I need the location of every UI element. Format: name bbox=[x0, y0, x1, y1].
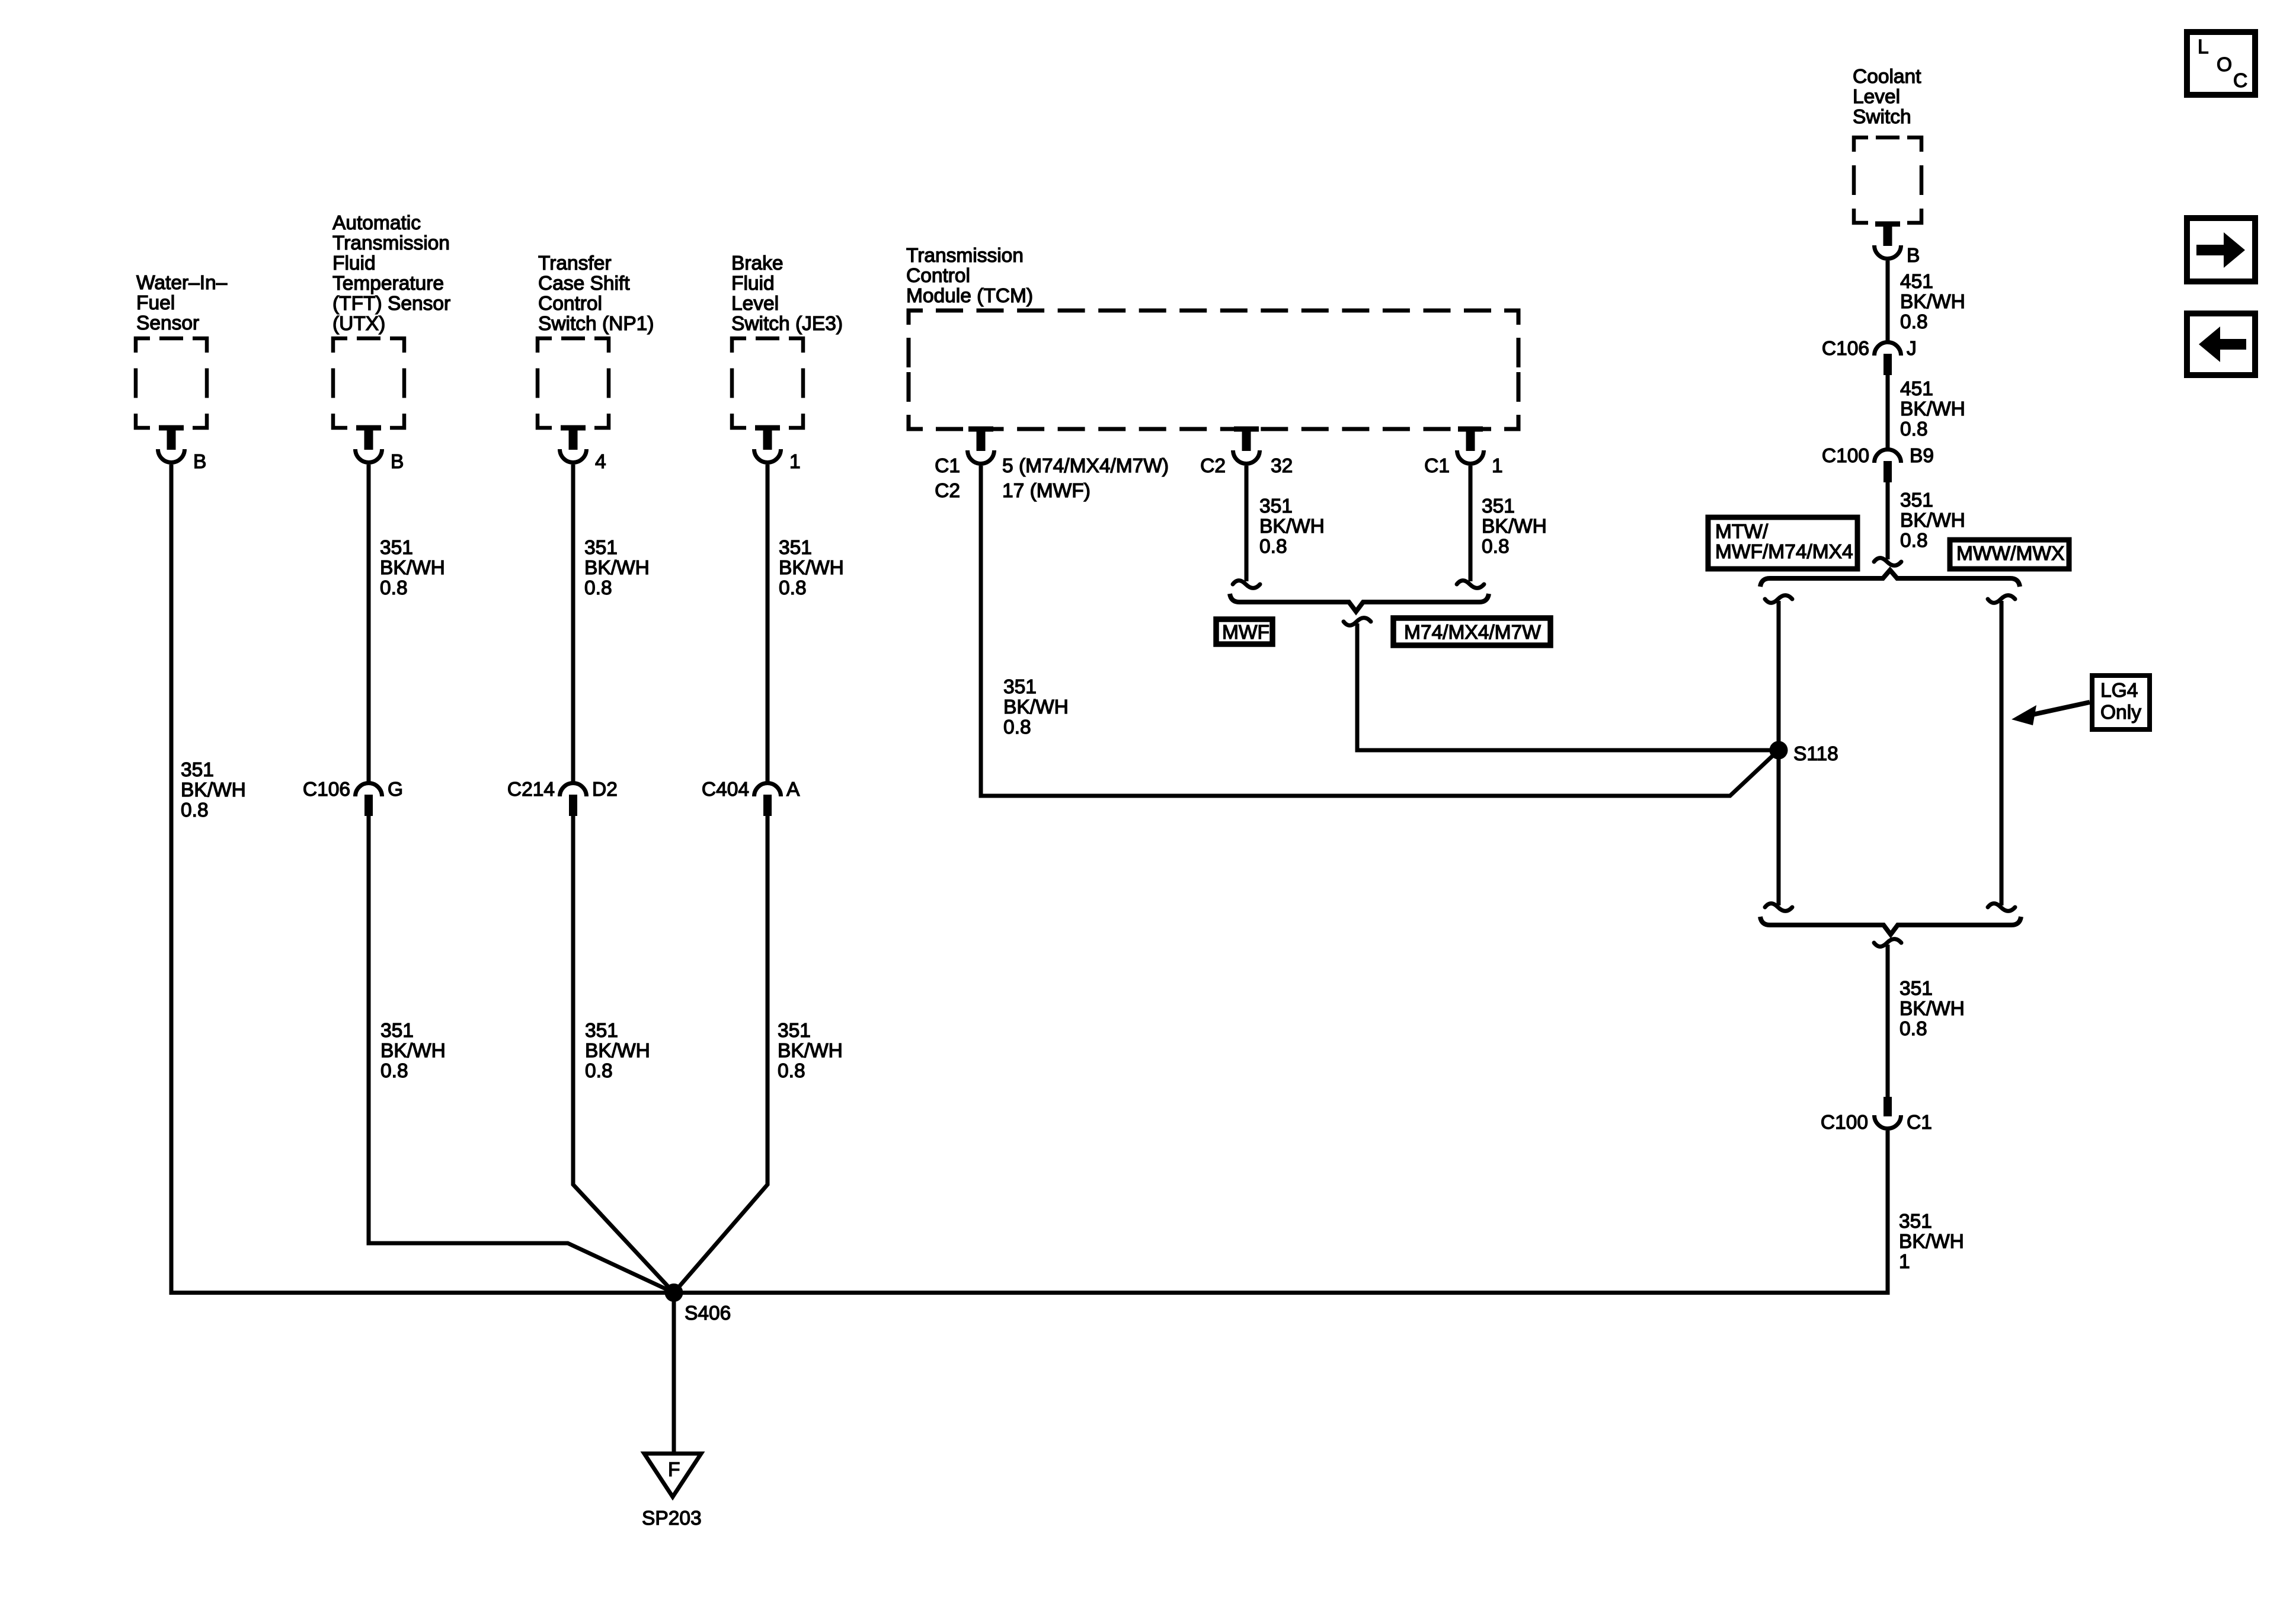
svg-text:B9: B9 bbox=[1910, 445, 1934, 467]
svg-text:C100: C100 bbox=[1821, 1112, 1868, 1134]
wire: water-in-fuel sensor B to ground bus S406 bbox=[171, 465, 1888, 1293]
svg-text:0.8: 0.8 bbox=[778, 1060, 805, 1082]
pin B of water-in-fuel sensor bbox=[159, 425, 184, 431]
wire break hook (pin 1 wire end) bbox=[1457, 581, 1484, 588]
svg-text:17 (MWF): 17 (MWF) bbox=[1002, 480, 1091, 502]
wire break hook (top of right variant branch) bbox=[1988, 596, 2015, 603]
svg-text:1: 1 bbox=[789, 451, 801, 473]
wire: coolant pin B to connector C106 J bbox=[1886, 261, 1890, 343]
wire break hook (pin 32 wire end) bbox=[1233, 581, 1260, 588]
svg-text:0.8: 0.8 bbox=[380, 577, 408, 599]
wire break hook (top of brace output wire) bbox=[1344, 618, 1371, 626]
svg-text:0.8: 0.8 bbox=[1900, 530, 1928, 552]
svg-text:351: 351 bbox=[380, 1020, 414, 1042]
svg-text:351: 351 bbox=[1900, 489, 1933, 511]
svg-text:0.8: 0.8 bbox=[585, 1060, 613, 1082]
svg-text:C1: C1 bbox=[935, 455, 960, 477]
svg-text:D2: D2 bbox=[592, 779, 618, 801]
svg-text:C214: C214 bbox=[507, 779, 555, 801]
svg-text:B: B bbox=[1907, 245, 1920, 267]
svg-text:351: 351 bbox=[1482, 495, 1515, 517]
svg-text:Automatic: Automatic bbox=[332, 212, 421, 234]
svg-text:LG4: LG4 bbox=[2100, 680, 2138, 702]
svg-text:Switch (NP1): Switch (NP1) bbox=[538, 313, 654, 335]
svg-text:5 (M74/MX4/M7W): 5 (M74/MX4/M7W) bbox=[1002, 455, 1169, 477]
svg-text:0.8: 0.8 bbox=[1900, 1018, 1927, 1040]
water-in-fuel sensor dashed box bbox=[136, 338, 207, 428]
svg-text:Temperature: Temperature bbox=[332, 273, 444, 295]
svg-text:0.8: 0.8 bbox=[1003, 716, 1031, 738]
pin 1 of brake fluid level switch bbox=[755, 425, 780, 431]
label box MWF bbox=[1216, 619, 1272, 644]
ground symbol F (triangle) bbox=[644, 1454, 701, 1497]
svg-text:1: 1 bbox=[1899, 1251, 1910, 1273]
svg-text:C2: C2 bbox=[935, 480, 960, 502]
svg-text:L: L bbox=[2198, 36, 2209, 58]
svg-text:A: A bbox=[786, 779, 800, 801]
TFT sensor dashed box bbox=[333, 338, 404, 428]
svg-text:C1: C1 bbox=[1907, 1112, 1932, 1134]
svg-text:SP203: SP203 bbox=[642, 1507, 702, 1529]
svg-text:BK/WH: BK/WH bbox=[181, 779, 246, 801]
svg-text:BK/WH: BK/WH bbox=[1482, 516, 1547, 537]
svg-text:Level: Level bbox=[731, 293, 779, 315]
svg-text:B: B bbox=[391, 451, 404, 473]
TCM pin 32 (C2) bbox=[1234, 427, 1259, 432]
svg-text:C404: C404 bbox=[702, 779, 749, 801]
svg-text:O: O bbox=[2217, 54, 2232, 76]
svg-text:351: 351 bbox=[1900, 978, 1933, 1000]
inline connector C214 pin D2 bbox=[560, 783, 587, 797]
svg-text:C: C bbox=[2233, 70, 2247, 92]
svg-text:351: 351 bbox=[181, 759, 214, 781]
svg-text:(UTX): (UTX) bbox=[332, 313, 385, 335]
brace joining MWF and M74/MX4/M7W wires bbox=[1230, 594, 1489, 612]
svg-text:0.8: 0.8 bbox=[779, 577, 807, 599]
svg-text:C100: C100 bbox=[1822, 445, 1869, 467]
TCM dashed box bbox=[909, 311, 1518, 429]
svg-text:(TFT) Sensor: (TFT) Sensor bbox=[332, 293, 450, 315]
wire break hook (below merge brace) bbox=[1874, 939, 1901, 947]
wire: right variant branch bbox=[2000, 601, 2004, 905]
svg-text:0.8: 0.8 bbox=[181, 799, 209, 821]
label box MWW/MWX bbox=[1950, 540, 2069, 569]
svg-text:Only: Only bbox=[2100, 702, 2141, 724]
svg-text:BK/WH: BK/WH bbox=[1003, 696, 1069, 718]
svg-text:4: 4 bbox=[595, 451, 606, 473]
legend box left arrow bbox=[2187, 313, 2255, 375]
svg-text:C1: C1 bbox=[1424, 455, 1450, 477]
svg-text:Module (TCM): Module (TCM) bbox=[906, 285, 1033, 307]
wire: C106 J to C100 B9 bbox=[1886, 375, 1890, 449]
svg-text:BK/WH: BK/WH bbox=[380, 1040, 446, 1062]
svg-text:351: 351 bbox=[584, 537, 618, 559]
label box LG4 Only bbox=[2092, 676, 2150, 729]
svg-text:MWW/MWX: MWW/MWX bbox=[1956, 543, 2064, 565]
wire: merge brace down to C100 C1 bbox=[1886, 945, 1890, 1097]
arrow from LG4 Only box to right branch bbox=[2027, 702, 2090, 716]
svg-text:Coolant: Coolant bbox=[1853, 66, 1921, 88]
svg-text:Fluid: Fluid bbox=[332, 252, 376, 274]
wire break hook (top of left variant branch) bbox=[1765, 596, 1792, 603]
svg-text:BK/WH: BK/WH bbox=[380, 557, 445, 579]
svg-text:0.8: 0.8 bbox=[1900, 311, 1928, 333]
svg-text:351: 351 bbox=[778, 1020, 811, 1042]
wire: C100 B9 down to transmission brace bbox=[1886, 482, 1890, 559]
inline connector C404 pin A bbox=[754, 783, 781, 797]
brake fluid level switch dashed box bbox=[732, 338, 803, 428]
wire break hook (above transmission brace) bbox=[1874, 558, 1901, 566]
svg-text:Brake: Brake bbox=[731, 252, 784, 274]
svg-text:S406: S406 bbox=[685, 1302, 731, 1324]
svg-text:BK/WH: BK/WH bbox=[1899, 1231, 1964, 1253]
svg-text:BK/WH: BK/WH bbox=[1900, 291, 1965, 313]
svg-text:Transfer: Transfer bbox=[538, 252, 611, 274]
wire: C404 A down to S406 bbox=[674, 815, 768, 1293]
wire: brake fluid pin 1 down to connector C404 bbox=[766, 465, 770, 783]
TCM pin 5/17 (C1/C2) bbox=[968, 427, 993, 432]
transfer case switch dashed box bbox=[538, 338, 609, 428]
svg-text:BK/WH: BK/WH bbox=[585, 1040, 650, 1062]
svg-text:Transmission: Transmission bbox=[906, 245, 1024, 267]
svg-text:BK/WH: BK/WH bbox=[1259, 516, 1325, 537]
inline connector C100 pin B9 bbox=[1875, 450, 1901, 463]
wire: left variant branch (through S118) bbox=[1777, 601, 1781, 905]
svg-text:351: 351 bbox=[1259, 495, 1293, 517]
svg-text:351: 351 bbox=[779, 537, 812, 559]
svg-text:Fuel: Fuel bbox=[136, 292, 175, 314]
svg-text:MWF: MWF bbox=[1222, 622, 1269, 644]
coolant level switch dashed box bbox=[1854, 137, 1921, 223]
svg-text:Control: Control bbox=[906, 265, 970, 287]
svg-text:Control: Control bbox=[538, 293, 602, 315]
svg-text:M74/MX4/M7W: M74/MX4/M7W bbox=[1404, 622, 1541, 644]
svg-text:J: J bbox=[1907, 338, 1917, 360]
svg-text:Switch (JE3): Switch (JE3) bbox=[731, 313, 843, 335]
label box MTW/MWF/M74/MX4 bbox=[1708, 517, 1857, 569]
wire break hook (bottom of right variant branch) bbox=[1988, 904, 2015, 911]
svg-text:BK/WH: BK/WH bbox=[1900, 398, 1965, 420]
svg-text:BK/WH: BK/WH bbox=[1900, 510, 1965, 532]
svg-text:Water–In–: Water–In– bbox=[136, 272, 228, 294]
svg-text:Switch: Switch bbox=[1853, 106, 1911, 128]
svg-text:BK/WH: BK/WH bbox=[778, 1040, 843, 1062]
svg-text:0.8: 0.8 bbox=[1482, 536, 1510, 558]
svg-text:C106: C106 bbox=[1822, 338, 1869, 360]
brace merging transmission variants bbox=[1760, 917, 2021, 934]
wire: C106 G down and over to S406 bbox=[369, 815, 674, 1293]
svg-text:C106: C106 bbox=[303, 779, 350, 801]
wire: S406 down to ground symbol bbox=[672, 1292, 676, 1453]
svg-text:351: 351 bbox=[1003, 676, 1037, 698]
inline connector C106 pin J bbox=[1875, 343, 1901, 356]
svg-text:1: 1 bbox=[1492, 455, 1503, 477]
svg-text:0.8: 0.8 bbox=[1900, 418, 1928, 440]
svg-text:32: 32 bbox=[1271, 455, 1293, 477]
pin B of TFT sensor bbox=[356, 425, 381, 431]
svg-text:G: G bbox=[388, 779, 403, 801]
svg-text:BK/WH: BK/WH bbox=[779, 557, 844, 579]
svg-text:351: 351 bbox=[585, 1020, 618, 1042]
pin 4 of transfer case switch bbox=[561, 425, 586, 431]
inline connector C106 pin G bbox=[356, 783, 382, 797]
svg-text:MTW/: MTW/ bbox=[1715, 521, 1769, 543]
brace splitting to transmission variants bbox=[1760, 570, 2020, 587]
wire: C214 D2 down to S406 bbox=[573, 815, 674, 1293]
legend box right arrow bbox=[2187, 218, 2255, 281]
svg-text:C2: C2 bbox=[1200, 455, 1226, 477]
wire: transfer case pin 4 down to connector C214 bbox=[571, 465, 575, 783]
svg-text:Fluid: Fluid bbox=[731, 273, 775, 295]
svg-text:Transmission: Transmission bbox=[332, 232, 450, 254]
svg-text:0.8: 0.8 bbox=[1259, 536, 1287, 558]
svg-text:S118: S118 bbox=[1793, 743, 1838, 765]
wire: brace output over to splice S118 bbox=[1357, 623, 1779, 750]
svg-text:0.8: 0.8 bbox=[584, 577, 612, 599]
svg-text:BK/WH: BK/WH bbox=[1900, 998, 1965, 1020]
legend box LOC bbox=[2187, 32, 2255, 95]
svg-text:Sensor: Sensor bbox=[136, 312, 199, 334]
wire: TFT pin B down to connector C106 bbox=[367, 465, 371, 783]
svg-text:351: 351 bbox=[380, 537, 413, 559]
svg-text:Level: Level bbox=[1853, 86, 1900, 108]
wire: TCM pin 32 down to MWF brace bbox=[1245, 466, 1249, 581]
svg-text:451: 451 bbox=[1900, 378, 1933, 400]
svg-text:BK/WH: BK/WH bbox=[584, 557, 650, 579]
svg-text:0.8: 0.8 bbox=[380, 1060, 408, 1082]
svg-text:Case Shift: Case Shift bbox=[538, 273, 630, 295]
svg-text:451: 451 bbox=[1900, 271, 1933, 293]
svg-text:351: 351 bbox=[1899, 1211, 1932, 1233]
wire break hook (bottom of left variant branch) bbox=[1765, 904, 1792, 911]
inline connector C100 pin C1 bbox=[1884, 1097, 1892, 1116]
svg-text:B: B bbox=[193, 451, 206, 473]
wire: TCM pin 5 to splice S118 bbox=[981, 466, 1779, 796]
pin B of coolant level switch bbox=[1875, 222, 1900, 227]
wire: TCM pin 1 down to MWF brace bbox=[1469, 466, 1473, 581]
svg-text:F: F bbox=[668, 1459, 680, 1481]
svg-text:MWF/M74/MX4: MWF/M74/MX4 bbox=[1715, 541, 1853, 563]
splice S118 junction dot bbox=[1770, 741, 1788, 760]
TCM pin 1 (C1) bbox=[1458, 427, 1483, 432]
label box M74/MX4/M7W bbox=[1393, 618, 1550, 645]
splice S406 junction dot bbox=[665, 1283, 683, 1302]
